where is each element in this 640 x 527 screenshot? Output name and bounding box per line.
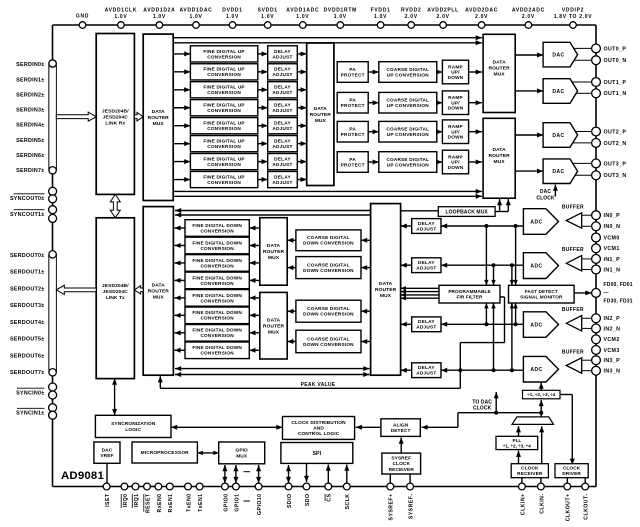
- align detect block: [381, 419, 420, 437]
- pin RESET: [144, 483, 152, 513]
- svg-text:LOGIC: LOGIC: [125, 427, 141, 433]
- svg-text:DAC: DAC: [552, 169, 564, 175]
- svg-text:PA: PA: [349, 98, 356, 103]
- svg-text:SYNCIN1±: SYNCIN1±: [16, 410, 44, 416]
- pin TxEN0: [185, 483, 193, 512]
- svg-text:GPIO10: GPIO10: [257, 494, 263, 515]
- svg-text:SERDOUT2±: SERDOUT2±: [10, 286, 45, 292]
- wire: DAC VREF to ISET pin: [106, 463, 108, 483]
- pin VCM3: [592, 346, 620, 355]
- DAC data router mux top: [483, 34, 515, 112]
- svg-text:AD9081: AD9081: [61, 470, 104, 482]
- svg-text:AVDD1DAC: AVDD1DAC: [179, 8, 212, 14]
- svg-text:DELAY: DELAY: [274, 67, 291, 72]
- hollow arrow JESD Tx to SERDOUT bus: [56, 285, 96, 294]
- svg-text:÷1, ÷2, ÷3, ÷4: ÷1, ÷2, ÷3, ÷4: [503, 443, 531, 448]
- wire: clock line up into divider: [540, 400, 542, 413]
- svg-text:DELAY: DELAY: [274, 49, 291, 54]
- Tx delay adjust block 4: [268, 118, 298, 134]
- wires: big Rx mux to coarse DDC: [361, 238, 371, 344]
- svg-text:PA: PA: [349, 157, 356, 162]
- Tx delay adjust block 1: [268, 64, 298, 80]
- svg-text:FINE DIGITAL UP: FINE DIGITAL UP: [203, 85, 244, 90]
- ADC 1: [523, 253, 558, 279]
- fine digital down conversion block 5: [185, 307, 249, 324]
- JESD204B/JESD204C link Tx block U-TX: [96, 218, 134, 379]
- wires: coarse DDC to mux A/B: [287, 238, 296, 344]
- svg-text:DELAY: DELAY: [274, 156, 291, 161]
- ellipsis dash between GPIO1 and GPIO10 labels: [244, 500, 251, 502]
- svg-text:AVDD2ADC: AVDD2ADC: [512, 8, 545, 14]
- svg-text:SIGNAL MONITOR: SIGNAL MONITOR: [520, 295, 563, 300]
- svg-text:ADC: ADC: [530, 219, 542, 225]
- svg-text:VCM3: VCM3: [604, 348, 620, 354]
- svg-text:CONVERSION: CONVERSION: [200, 228, 234, 233]
- pin IN0_N: [592, 222, 621, 231]
- pin IN3_N: [592, 366, 621, 375]
- pin TxEN1: [196, 483, 204, 512]
- svg-text:OUT1_N: OUT1_N: [604, 91, 627, 97]
- svg-text:RVDD2: RVDD2: [401, 8, 421, 14]
- pin SYSREF+: [387, 483, 395, 520]
- svg-text:SERDIN7±: SERDIN7±: [16, 168, 44, 174]
- svg-text:SERDIN3±: SERDIN3±: [16, 108, 44, 114]
- fine digital down conversion block 2: [185, 255, 249, 272]
- svg-text:CONVERSION: CONVERSION: [207, 108, 241, 113]
- svg-text:IN3_N: IN3_N: [604, 369, 621, 375]
- junction dots on ADC output lines: [458, 224, 517, 372]
- svg-text:CONVERSION: CONVERSION: [200, 246, 234, 251]
- power pin FVDD1: [371, 8, 391, 29]
- svg-text:CONVERSION: CONVERSION: [207, 90, 241, 95]
- svg-text:DELAY: DELAY: [274, 139, 291, 144]
- svg-text:DAC: DAC: [552, 133, 564, 139]
- pin CLKOUT-: [582, 483, 590, 520]
- svg-text:1.0V: 1.0V: [296, 14, 309, 20]
- svg-text:DATA: DATA: [314, 106, 328, 112]
- coarse digital down conversion block 0: [296, 230, 361, 251]
- svg-text:FINE DIGITAL DOWN: FINE DIGITAL DOWN: [192, 275, 242, 280]
- svg-text:JESD204B/: JESD204B/: [102, 109, 129, 115]
- SERDIN input bus: [49, 60, 56, 174]
- svg-text:ADJUST: ADJUST: [272, 90, 292, 95]
- clock distribution and control logic block: [283, 417, 355, 440]
- ADC data router mux (big): [371, 204, 401, 376]
- svg-text:BUFFER: BUFFER: [562, 307, 584, 313]
- svg-text:FINE DIGITAL DOWN: FINE DIGITAL DOWN: [192, 258, 242, 263]
- DAC 3: [543, 159, 578, 184]
- pin RxEN0: [155, 483, 163, 512]
- sysref clock receiver block: [382, 453, 421, 474]
- svg-text:UP/: UP/: [451, 70, 460, 75]
- wires: mux1 to fine DUC rows: [173, 51, 190, 182]
- svg-text:UP CONVERSION: UP CONVERSION: [387, 162, 429, 167]
- svg-text:IN1_P: IN1_P: [604, 257, 621, 263]
- svg-text:CLOCK: CLOCK: [392, 461, 410, 467]
- svg-text:DOWN CONVERSION: DOWN CONVERSION: [303, 268, 354, 273]
- fast detect signal monitor block: [509, 285, 575, 303]
- svg-text:UP/: UP/: [451, 100, 460, 105]
- svg-text:MUX: MUX: [268, 329, 280, 335]
- wires: fine DDC to Rx-out mux: [174, 226, 185, 353]
- pin IN1_N: [592, 265, 621, 274]
- input buffer 3: [562, 349, 592, 373]
- svg-text:OUT0_P: OUT0_P: [604, 46, 627, 52]
- svg-text:FINE DIGITAL DOWN: FINE DIGITAL DOWN: [192, 240, 242, 245]
- ramp up/down block 1: [442, 91, 468, 115]
- svg-text:CONVERSION: CONVERSION: [207, 180, 241, 185]
- svg-text:OUT3_N: OUT3_N: [604, 173, 627, 179]
- power pin VDDIP2: [554, 8, 593, 29]
- ADC 2: [523, 312, 558, 338]
- svg-text:VCM1: VCM1: [604, 246, 620, 252]
- pin SYNCIN0±: [16, 383, 56, 399]
- svg-text:MUX: MUX: [153, 295, 165, 301]
- svg-text:SDO: SDO: [305, 494, 311, 507]
- fine digital down conversion block 4: [185, 290, 249, 307]
- svg-text:IN0_N: IN0_N: [604, 224, 621, 230]
- pin SYNCOUT1±: [10, 206, 57, 223]
- fine digital down conversion block 3: [185, 272, 249, 289]
- Tx delay adjust block 2: [268, 82, 298, 98]
- synchronization logic block: [95, 415, 171, 437]
- svg-text:1.0V: 1.0V: [226, 14, 239, 20]
- svg-text:CONVERSION: CONVERSION: [207, 54, 241, 59]
- svg-text:CS: CS: [327, 493, 333, 501]
- svg-text:DELAY: DELAY: [274, 121, 291, 126]
- clock mux trapezoid: [512, 413, 554, 425]
- svg-text:UP/: UP/: [451, 129, 460, 134]
- coarse digital up conversion block 3: [379, 152, 437, 173]
- svg-text:COARSE DIGITAL: COARSE DIGITAL: [386, 67, 429, 72]
- pin GPIO1: [233, 483, 241, 512]
- wires: CLKOUT pins to clock driver: [567, 478, 585, 483]
- fine digital up conversion block 6: [190, 154, 257, 170]
- pin CS: [325, 483, 333, 502]
- svg-text:CLKIN-: CLKIN-: [539, 494, 545, 514]
- svg-text:VCM0: VCM0: [604, 235, 620, 241]
- wire: divider up to ADC4 clock: [540, 383, 542, 391]
- fine digital up conversion block 5: [190, 136, 257, 152]
- svg-text:SYSREF+: SYSREF+: [389, 494, 395, 521]
- svg-text:DATA: DATA: [152, 109, 166, 115]
- data router mux 1 (Tx input): [143, 34, 173, 200]
- svg-text:SPI: SPI: [313, 451, 322, 457]
- svg-text:RESET: RESET: [145, 493, 151, 513]
- svg-text:BUFFER: BUFFER: [562, 247, 584, 253]
- pin IN0_P: [592, 211, 620, 220]
- svg-text:FINE DIGITAL UP: FINE DIGITAL UP: [203, 174, 244, 179]
- svg-text:AVDD2DAC: AVDD2DAC: [465, 8, 498, 14]
- wires: SPI pins: [286, 463, 349, 483]
- power pin AVDD2DAC: [465, 8, 498, 29]
- DAC 0: [543, 42, 578, 67]
- svg-text:DOWN CONVERSION: DOWN CONVERSION: [303, 241, 354, 246]
- clock receiver block: [511, 464, 548, 478]
- double arrow sync logic to clock distribution: [171, 426, 283, 428]
- fine digital down conversion block 0: [185, 220, 249, 237]
- svg-text:FINE DIGITAL DOWN: FINE DIGITAL DOWN: [192, 223, 242, 228]
- pin OUT3_P: [592, 159, 627, 168]
- svg-text:ADJUST: ADJUST: [272, 180, 292, 185]
- svg-text:FVDD1: FVDD1: [371, 8, 391, 14]
- svg-text:SERDOUT6±: SERDOUT6±: [10, 353, 45, 359]
- svg-text:SERDIN4±: SERDIN4±: [16, 123, 44, 129]
- svg-text:FINE DIGITAL DOWN: FINE DIGITAL DOWN: [192, 310, 242, 315]
- Tx delay adjust block 5: [268, 136, 298, 152]
- pin CLKIN-: [538, 483, 546, 514]
- svg-text:ADC: ADC: [530, 322, 542, 328]
- svg-text:IN2_P: IN2_P: [604, 316, 621, 322]
- wires: ADC taps up into fast detect bottom: [510, 303, 518, 370]
- wires: ADC taps up into FIR filter bottom: [484, 303, 496, 370]
- power pin AVDD1DAC: [179, 8, 212, 29]
- svg-text:SYNCIN0±: SYNCIN0±: [16, 390, 44, 396]
- chip outline border: [53, 25, 597, 487]
- wire: big mux to loopback mux: [401, 210, 439, 212]
- svg-text:MUX: MUX: [153, 121, 165, 127]
- svg-text:ROUTER: ROUTER: [375, 287, 397, 293]
- SPI block: [281, 443, 353, 464]
- data router mux 2 (Tx mid): [307, 43, 334, 186]
- svg-text:COARSE DIGITAL: COARSE DIGITAL: [307, 262, 350, 267]
- ramp up/down block 2: [442, 120, 468, 144]
- svg-text:MUX: MUX: [236, 453, 248, 459]
- PA protect block 1: [337, 92, 368, 113]
- svg-text:DAC: DAC: [552, 52, 564, 58]
- svg-text:SERDOUT1±: SERDOUT1±: [10, 270, 45, 276]
- svg-text:ISET: ISET: [105, 493, 111, 507]
- wires: mux A/B to fine DDC rows: [249, 226, 259, 353]
- svg-text:ROUTER: ROUTER: [310, 112, 332, 118]
- svg-text:CONVERSION: CONVERSION: [200, 263, 234, 268]
- svg-text:COARSE DIGITAL: COARSE DIGITAL: [307, 336, 350, 341]
- pin SYNCOUT0±: [10, 187, 57, 203]
- svg-text:PLL: PLL: [513, 438, 522, 443]
- svg-text:CONVERSION: CONVERSION: [207, 144, 241, 149]
- pin IN3_P: [592, 356, 620, 365]
- programmable FIR filter block: [439, 285, 500, 303]
- power pin GND: [76, 14, 89, 29]
- svg-text:DELAY: DELAY: [418, 365, 435, 370]
- svg-text:—: —: [604, 290, 609, 296]
- JESD204B/JESD204C link Rx block U-RX: [96, 34, 134, 195]
- input buffer 2: [562, 307, 592, 331]
- svg-text:ROUTER: ROUTER: [488, 153, 510, 159]
- svg-text:DAC: DAC: [102, 447, 113, 453]
- svg-text:CONVERSION: CONVERSION: [207, 126, 241, 131]
- svg-text:FD30, FD31: FD30, FD31: [604, 298, 633, 304]
- svg-text:DATA: DATA: [492, 60, 506, 66]
- svg-text:OUT1_P: OUT1_P: [604, 80, 627, 86]
- svg-text:RECEIVER: RECEIVER: [389, 467, 415, 473]
- svg-text:PROTECT: PROTECT: [341, 72, 365, 77]
- Rx delay adjust block 1: [412, 258, 441, 273]
- fine digital down conversion block 6: [185, 325, 249, 342]
- pin IN2_P: [592, 314, 620, 323]
- svg-text:PA: PA: [349, 67, 356, 72]
- svg-text:VCM2: VCM2: [604, 337, 620, 343]
- svg-text:ADJUST: ADJUST: [272, 108, 292, 113]
- svg-text:AND: AND: [313, 426, 324, 432]
- pin OUT2_N: [592, 139, 627, 148]
- svg-text:DOWN: DOWN: [448, 165, 464, 170]
- svg-text:1.0V: 1.0V: [114, 14, 127, 20]
- Tx delay adjust block 6: [268, 154, 298, 170]
- svg-text:CONVERSION: CONVERSION: [200, 281, 234, 286]
- wire: fast detect to FD pin: [574, 292, 591, 294]
- wires: Tx bypass lines top: [173, 35, 482, 45]
- wires: CLKIN pins to clock receiver: [522, 478, 541, 483]
- svg-text:PEAK VALUE: PEAK VALUE: [301, 382, 336, 388]
- svg-text:GPIO0: GPIO0: [223, 494, 229, 512]
- svg-text:DELAY: DELAY: [274, 103, 291, 108]
- svg-text:RAMP: RAMP: [448, 154, 463, 159]
- wires: loopback mux up to DAC router mux: [495, 199, 511, 212]
- svg-text:FINE DIGITAL DOWN: FINE DIGITAL DOWN: [192, 328, 242, 333]
- wire: divider to clock driver: [560, 395, 575, 465]
- svg-text:SERDOUT5±: SERDOUT5±: [10, 337, 45, 343]
- Tx delay adjust block 7: [268, 171, 298, 187]
- svg-text:DOWN CONVERSION: DOWN CONVERSION: [303, 342, 354, 347]
- svg-text:CLOCK: CLOCK: [536, 196, 555, 202]
- svg-text:2.0V: 2.0V: [475, 14, 488, 20]
- pin IN1_P: [592, 255, 620, 264]
- Rx data router mux small B: [260, 292, 287, 359]
- svg-text:MUX: MUX: [380, 293, 392, 299]
- svg-text:FINE DIGITAL UP: FINE DIGITAL UP: [203, 67, 244, 72]
- svg-text:CLOCK: CLOCK: [521, 466, 539, 472]
- svg-text:ROUTER: ROUTER: [148, 289, 170, 295]
- svg-text:IN3_P: IN3_P: [604, 358, 621, 364]
- svg-text:CONVERSION: CONVERSION: [200, 351, 234, 356]
- fine digital up conversion block 3: [190, 100, 257, 116]
- svg-text:MUX: MUX: [494, 159, 506, 165]
- svg-text:IN1_N: IN1_N: [604, 267, 621, 273]
- pin SYSREF-: [407, 483, 415, 519]
- wires: Rx bypass to mux top: [175, 208, 371, 218]
- svg-text:RAMP: RAMP: [448, 64, 463, 69]
- svg-text:LINK Rx: LINK Rx: [105, 121, 125, 127]
- pin VCM2: [592, 335, 620, 344]
- coarse digital down conversion block 1: [296, 257, 361, 279]
- power pin AVDD2PLL: [427, 8, 459, 29]
- svg-text:ADJUST: ADJUST: [272, 144, 292, 149]
- power pin DVDD1: [222, 8, 242, 29]
- wires: PA protect to coarse DUC: [368, 70, 379, 165]
- svg-text:DELAY: DELAY: [418, 260, 435, 265]
- svg-text:FD00, FD01: FD00, FD01: [604, 282, 633, 288]
- svg-text:SERDIN2±: SERDIN2±: [16, 92, 44, 98]
- svg-text:VREF: VREF: [100, 453, 113, 459]
- svg-text:VDDIP2: VDDIP2: [562, 8, 584, 14]
- wires: delay adjust to big Rx mux: [401, 224, 412, 373]
- svg-text:RxEN1: RxEN1: [168, 494, 174, 513]
- svg-text:UP/: UP/: [451, 160, 460, 165]
- svg-text:DELAY: DELAY: [418, 319, 435, 324]
- ADC 3: [523, 356, 558, 382]
- svg-text:OUT0_N: OUT0_N: [604, 58, 627, 64]
- svg-text:2.0V: 2.0V: [405, 14, 418, 20]
- svg-text:ROUTER: ROUTER: [488, 66, 510, 72]
- wires: FIR filter to big Rx mux: [401, 286, 439, 300]
- svg-text:RxEN0: RxEN0: [157, 494, 163, 513]
- coarse digital down conversion block 2: [296, 300, 361, 322]
- svg-text:AVDD1D2A: AVDD1D2A: [143, 8, 175, 14]
- svg-text:SERDIN5±: SERDIN5±: [16, 138, 44, 144]
- data router mux Rx-out (left): [143, 207, 173, 376]
- svg-text:DOWN: DOWN: [448, 135, 464, 140]
- svg-text:RAMP: RAMP: [448, 95, 463, 100]
- fine digital up conversion block 0: [190, 46, 257, 62]
- wires: fine DUC to delay adjust rows: [258, 51, 268, 182]
- wire: sysref receiver to align detect: [400, 438, 402, 454]
- fine digital up conversion block 7: [190, 171, 257, 187]
- svg-text:TxEN1: TxEN1: [198, 494, 204, 512]
- power pin AVDD2ADC: [512, 8, 545, 29]
- PA protect block 3: [337, 152, 368, 173]
- svg-text:GND: GND: [76, 14, 89, 20]
- DAC VREF block: [94, 442, 120, 463]
- GPIO mux block: [219, 442, 265, 464]
- svg-text:JESD204C: JESD204C: [103, 289, 129, 295]
- Rx delay adjust block 0: [412, 219, 441, 234]
- clock driver block: [555, 464, 588, 478]
- svg-text:FINE DIGITAL DOWN: FINE DIGITAL DOWN: [192, 293, 242, 298]
- DAC CLOCK label and arrow: [536, 185, 558, 202]
- loopback mux block: [438, 207, 495, 217]
- svg-text:CLOCK: CLOCK: [563, 466, 581, 472]
- svg-text:DATA: DATA: [267, 243, 281, 249]
- svg-text:SYSREF: SYSREF: [391, 455, 411, 461]
- PEAK VALUE wire from FIR filter and label: [158, 297, 505, 388]
- svg-text:ROUTER: ROUTER: [263, 249, 285, 255]
- hollow arrow SERDIN bus to JESD Rx: [56, 112, 96, 121]
- Rx data router mux small A: [260, 218, 287, 286]
- wires: DAC 0 outputs to pins: [574, 48, 592, 60]
- svg-text:SYNCOUT0±: SYNCOUT0±: [10, 196, 45, 202]
- svg-text:CLKIN+: CLKIN+: [520, 494, 526, 516]
- svg-text:RECEIVER: RECEIVER: [517, 471, 543, 477]
- pin OUT0_P: [592, 44, 627, 53]
- svg-text:DATA: DATA: [492, 147, 506, 153]
- svg-text:GPIO1: GPIO1: [234, 494, 240, 512]
- pin OUT1_N: [592, 89, 627, 98]
- wires: DAC 2 outputs to pins: [573, 132, 592, 143]
- wires: delay adjust to Tx mid data router mux: [297, 51, 306, 182]
- svg-text:ADJUST: ADJUST: [416, 371, 436, 376]
- pin VCM0: [592, 233, 620, 242]
- svg-text:DATA: DATA: [379, 281, 393, 287]
- TO DAC CLOCK label and arrow: [472, 392, 498, 413]
- svg-text:ROUTER: ROUTER: [148, 115, 170, 121]
- svg-text:UP CONVERSION: UP CONVERSION: [387, 72, 429, 77]
- svg-text:LOOPBACK MUX: LOOPBACK MUX: [446, 209, 489, 215]
- svg-text:OUT3_P: OUT3_P: [604, 161, 627, 167]
- wires: DAC 1 outputs to pins: [572, 82, 592, 93]
- svg-text:COARSE DIGITAL: COARSE DIGITAL: [386, 157, 429, 162]
- svg-text:ADC: ADC: [530, 367, 542, 373]
- svg-text:1.0V: 1.0V: [334, 14, 347, 20]
- double arrow microprocessor to GPIO mux: [197, 452, 218, 454]
- ADC 0: [523, 209, 558, 235]
- fine digital up conversion block 1: [190, 64, 257, 80]
- svg-text:IRQ0: IRQ0: [123, 494, 129, 508]
- coarse digital up conversion block 2: [379, 121, 437, 142]
- svg-text:CONVERSION: CONVERSION: [200, 316, 234, 321]
- svg-text:CLKOUT-: CLKOUT-: [584, 494, 590, 520]
- svg-text:MICROPROCESSOR: MICROPROCESSOR: [141, 450, 189, 456]
